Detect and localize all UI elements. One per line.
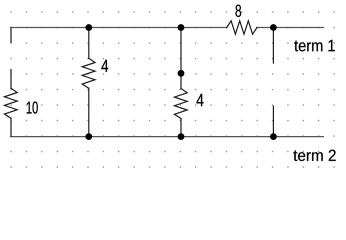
value label 4 (second branch) bbox=[197, 94, 204, 106]
wire: top bus left of R3 bbox=[11, 27, 227, 29]
resistor R1 value 10 (left, vertical) bbox=[4, 88, 17, 118]
resistor R2b value 4 (second vertical branch) bbox=[174, 89, 187, 119]
wire: term 1 stub bbox=[272, 28, 274, 64]
wire: left lead above R1 bbox=[10, 70, 12, 89]
value label 8 bbox=[236, 5, 242, 17]
junction bottom right / term 2 node bbox=[270, 133, 277, 140]
node label term 2 bbox=[293, 150, 335, 161]
wire: branch lead above R2a bbox=[88, 28, 90, 59]
resistor R2a value 4 (first vertical branch) bbox=[82, 58, 95, 88]
wire: branch lead below R2a bbox=[88, 88, 90, 136]
junction top of first branch bbox=[85, 24, 92, 31]
node label term 1 bbox=[294, 40, 335, 51]
wire: top-left terminal stub bbox=[10, 28, 12, 43]
junction mid second branch bbox=[178, 70, 185, 77]
wire: term 2 stub bbox=[272, 106, 274, 136]
wire: second branch upper lead bbox=[180, 28, 182, 89]
grid background bbox=[0, 0, 346, 170]
value label 10 bbox=[27, 102, 38, 114]
wire: bottom bus bbox=[11, 136, 323, 138]
junction bottom of first branch bbox=[85, 133, 92, 140]
resistor R3 value 8 (horizontal, top right) bbox=[227, 21, 257, 34]
wire: left lead below R1 bbox=[10, 118, 12, 136]
junction top right / term 1 node bbox=[270, 24, 277, 31]
wire: top bus right of R3 to term 1 bbox=[257, 27, 323, 29]
wire: second branch lower lead bbox=[180, 119, 182, 137]
junction top of second branch bbox=[178, 24, 185, 31]
value label 4 (first branch) bbox=[101, 60, 108, 72]
junction bottom of second branch bbox=[178, 133, 185, 140]
